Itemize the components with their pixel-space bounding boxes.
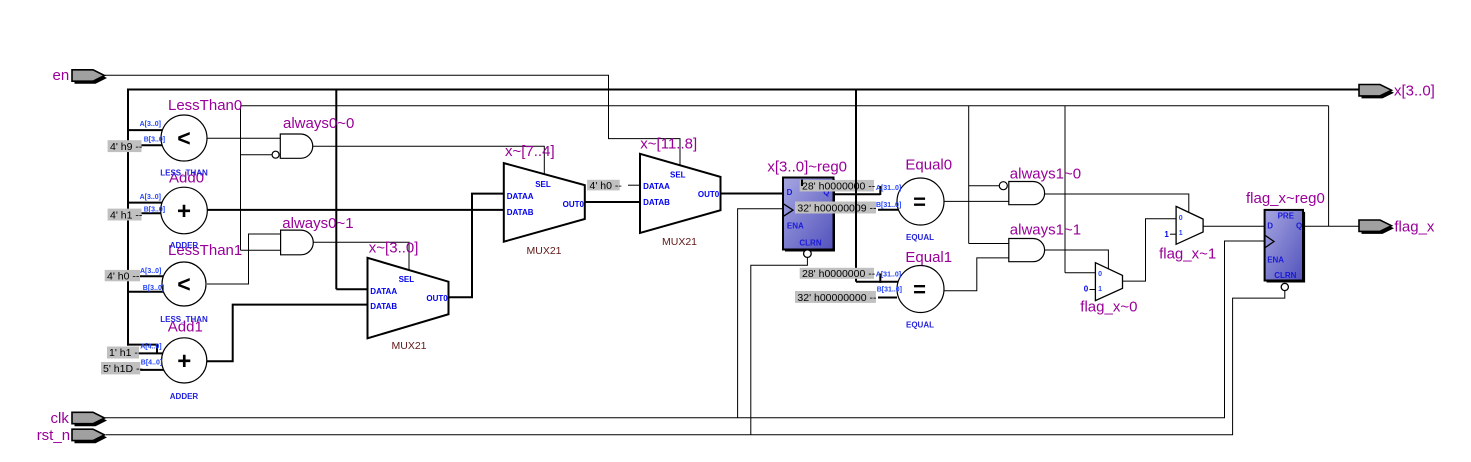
- wire stub Q to Equal0 A: [879, 186, 881, 195]
- wire to always0~1 lower input: [241, 249, 282, 251]
- const 28'h0000000 box (Equal0 A): [800, 180, 876, 193]
- svg-text:A[4..0]: A[4..0]: [140, 343, 161, 350]
- operator Add1: [162, 338, 207, 383]
- wire clk branch to x reg clock: [738, 209, 784, 418]
- operator LessThan0: [161, 115, 207, 161]
- svg-text:+: +: [177, 198, 191, 225]
- svg-text:B[4..0]: B[4..0]: [141, 360, 162, 367]
- svg-text:A[3..0]: A[3..0]: [140, 194, 161, 201]
- svg-text:ADDER: ADDER: [170, 392, 199, 401]
- wire flag_x~0 out to flag_x~1 input 0: [1123, 219, 1178, 281]
- mux x~[3..0]: [368, 258, 449, 339]
- svg-text:32' h00000000 --: 32' h00000000 --: [797, 292, 877, 304]
- svg-text:4' h0 --: 4' h0 --: [590, 180, 623, 192]
- svg-text:CLRN: CLRN: [1274, 271, 1296, 280]
- svg-text:flag_x~reg0: flag_x~reg0: [1246, 190, 1325, 207]
- svg-text:always0~0: always0~0: [283, 115, 354, 132]
- wire bus to Equal1 A row: [856, 281, 898, 283]
- svg-text:=: =: [913, 277, 926, 302]
- wire x-bus feedback left vertical: [127, 89, 129, 346]
- svg-text:LessThan0: LessThan0: [168, 97, 242, 114]
- wire flag_x feedback horizontal: [241, 105, 1329, 107]
- svg-text:flag_x~1: flag_x~1: [1159, 245, 1216, 262]
- svg-text:1: 1: [1179, 230, 1183, 237]
- svg-text:x~[3..0]: x~[3..0]: [369, 240, 419, 257]
- wire x-bus to Add0 A: [128, 202, 165, 204]
- const 32'h00000009 box (Equal0 B): [795, 202, 877, 215]
- wire x-bus to LessThan1 B: [128, 291, 166, 293]
- svg-text:ENA: ENA: [1267, 255, 1284, 264]
- svg-text:5' h1D --: 5' h1D --: [103, 363, 143, 375]
- output pin x[3..0]: [1359, 85, 1394, 99]
- wire rst_n net: [106, 290, 1285, 435]
- wire Equal1 B port: [878, 297, 897, 299]
- const 5'h1D box: [101, 362, 143, 375]
- svg-text:MUX21: MUX21: [526, 245, 561, 257]
- mux flag_x~0: [1095, 263, 1122, 301]
- wire Add0 B port from const: [142, 212, 166, 214]
- svg-text:ADDER: ADDER: [170, 241, 199, 250]
- svg-text:SEL: SEL: [535, 180, 551, 189]
- svg-text:+: +: [177, 348, 191, 375]
- svg-text:PRE: PRE: [1278, 212, 1295, 221]
- register flag_x~reg0: [1265, 210, 1306, 291]
- svg-text:MUX21: MUX21: [391, 340, 426, 352]
- svg-text:4' h1 --: 4' h1 --: [110, 209, 143, 221]
- svg-text:4' h0 --: 4' h0 --: [107, 271, 140, 283]
- wire always1~1 out to SEL of flag_x~0: [1045, 250, 1109, 270]
- svg-text:DATAB: DATAB: [507, 208, 534, 217]
- wire flag reg Q to flag_x pin: [1303, 225, 1360, 227]
- svg-text:B[31..0]: B[31..0]: [877, 287, 902, 294]
- wire rst branch to x reg CLRN: [751, 257, 808, 435]
- svg-text:Q: Q: [1296, 222, 1302, 231]
- svg-text:Equal1: Equal1: [905, 249, 952, 266]
- svg-text:1: 1: [1098, 286, 1102, 293]
- svg-text:clk: clk: [51, 410, 70, 427]
- wire en net: [105, 75, 680, 166]
- wire to flag_x~0 input 0: [1065, 272, 1096, 274]
- const 4'h9 box: [108, 140, 143, 153]
- svg-text:DATAB: DATAB: [643, 198, 670, 207]
- svg-text:OUT0: OUT0: [563, 200, 585, 209]
- gate always0~0: [272, 134, 313, 158]
- svg-text:flag_x~0: flag_x~0: [1080, 299, 1137, 316]
- svg-text:0: 0: [1084, 284, 1089, 293]
- svg-text:LESS_THAN: LESS_THAN: [160, 169, 208, 178]
- svg-text:B[3..0]: B[3..0]: [144, 207, 165, 214]
- wire flag feedback right vertical to flag Q: [1328, 106, 1330, 227]
- const 4'h0 box (LessThan1): [105, 270, 140, 283]
- wire x-bus vertical at register Q: [855, 89, 857, 282]
- svg-text:always1~0: always1~0: [1010, 165, 1081, 182]
- svg-text:en: en: [53, 67, 70, 84]
- wire Add1 out to DATAB of x~[3..0]: [207, 305, 369, 362]
- wire Equal0 B port: [878, 209, 898, 211]
- register x[3..0]~reg0: [783, 178, 835, 258]
- wire LessThan0 B port from const: [142, 144, 167, 146]
- wire LessThan1 out to always0~1: [207, 234, 281, 284]
- svg-text:A[31..0]: A[31..0]: [876, 185, 901, 192]
- svg-text:A[31..0]: A[31..0]: [876, 271, 901, 278]
- svg-text:<: <: [177, 271, 190, 297]
- svg-text:=: =: [913, 190, 926, 215]
- svg-text:OUT0: OUT0: [698, 190, 720, 199]
- wire Add0 out to DATAB of x~[7..4]: [207, 209, 504, 211]
- svg-text:LESS_THAN: LESS_THAN: [160, 315, 208, 324]
- input pin en: [72, 70, 107, 84]
- wire flag_x~1 out to flag reg D: [1202, 225, 1265, 227]
- input pin rst_n: [72, 429, 107, 443]
- wire flag feedback left vertical: [240, 106, 242, 251]
- gate always1~0: [999, 182, 1044, 205]
- wire const to DATAA of x~[11..8]: [628, 184, 641, 186]
- svg-text:A[3..0]: A[3..0]: [140, 121, 161, 128]
- mux x~[7..4]: [504, 163, 585, 242]
- wire to always0~0 bubble: [241, 154, 273, 156]
- svg-text:CLRN: CLRN: [799, 239, 821, 248]
- wire x~[3..0] OUT0 to DATAA of x~[7..4]: [449, 194, 505, 298]
- svg-text:DATAA: DATAA: [370, 287, 397, 296]
- svg-text:x~[11..8]: x~[11..8]: [640, 136, 697, 153]
- svg-text:1' h1 --: 1' h1 --: [109, 347, 142, 359]
- wire x-bus horizontal to x[3..0] pin: [127, 89, 1360, 91]
- wire to DATAA of x~[3..0]: [336, 288, 369, 290]
- wire LessThan0 out to always0~0: [207, 137, 281, 139]
- wire always0~1 out to SEL of x~[3..0]: [313, 242, 409, 271]
- wire overlay on Equal0 const boxes: [855, 179, 857, 214]
- svg-text:rst_n: rst_n: [37, 427, 70, 444]
- svg-text:EQUAL: EQUAL: [906, 233, 934, 242]
- svg-text:<: <: [177, 125, 190, 151]
- wire Add1 B port from const: [140, 369, 165, 371]
- svg-text:SEL: SEL: [670, 171, 686, 180]
- svg-text:4' h9 --: 4' h9 --: [110, 141, 143, 153]
- svg-text:Equal0: Equal0: [905, 157, 952, 174]
- wire flag feedback vertical to flag_x~0: [1064, 106, 1066, 273]
- svg-text:always1~1: always1~1: [1010, 222, 1081, 239]
- wire const 0 to flag_x~0 input 1: [1090, 289, 1097, 291]
- svg-text:SEL: SEL: [399, 275, 415, 284]
- svg-text:x[3..0]: x[3..0]: [1394, 83, 1435, 100]
- wire Equal1 out to always1~1: [944, 258, 1009, 291]
- wire clk net: [105, 241, 1265, 418]
- svg-text:0: 0: [1098, 271, 1102, 278]
- operator Add0: [161, 187, 208, 234]
- svg-text:B[31..0]: B[31..0]: [876, 202, 901, 209]
- wire always0~0 out to SEL of x~[7..4]: [313, 146, 544, 175]
- const 4'h1 box: [108, 209, 143, 222]
- svg-text:MUX21: MUX21: [662, 236, 697, 248]
- operator Equal1: [897, 266, 944, 313]
- svg-text:D: D: [1267, 222, 1273, 231]
- wire register Q output: [834, 193, 880, 195]
- operator LessThan1: [162, 262, 206, 306]
- wire stub to Equal1 A: [879, 274, 881, 283]
- const 4'h0 box (x~[11..8] DATAA): [587, 180, 622, 192]
- gate always1~1: [1009, 239, 1045, 262]
- svg-text:A[3..0]: A[3..0]: [140, 268, 161, 275]
- wire Add1 A port from const: [139, 352, 166, 354]
- svg-text:x~[7..4]: x~[7..4]: [505, 143, 555, 160]
- wire x-bus vertical to x~[3..0] DATAA: [335, 89, 337, 290]
- svg-text:D: D: [787, 188, 793, 197]
- const 1'h1 box: [107, 347, 142, 360]
- mux x~[11..8]: [640, 154, 721, 233]
- svg-text:DATAA: DATAA: [507, 192, 534, 201]
- svg-text:B[3..0]: B[3..0]: [144, 137, 165, 144]
- svg-text:B[3..0]: B[3..0]: [143, 285, 164, 292]
- output pin flag_x: [1359, 220, 1394, 234]
- wire x-bus to LessThan0 A: [128, 129, 166, 131]
- wire LessThan1 A port from const: [140, 275, 166, 277]
- svg-text:DATAA: DATAA: [643, 182, 670, 191]
- svg-text:EQUAL: EQUAL: [906, 321, 934, 330]
- const 32'h00000000 box (Equal1 B): [795, 291, 877, 304]
- input pin clk: [72, 412, 107, 426]
- svg-text:DATAB: DATAB: [370, 302, 397, 311]
- wire flag feedback vertical to always1 gates: [968, 106, 970, 244]
- svg-text:flag_x: flag_x: [1394, 219, 1435, 236]
- wire x~[7..4] OUT0 to DATAB of x~[11..8]: [585, 201, 641, 203]
- gate always0~1: [281, 230, 314, 255]
- wire to always1~1 upper input: [969, 243, 1009, 245]
- svg-text:28' h0000000 --: 28' h0000000 --: [802, 268, 876, 280]
- svg-text:always0~1: always0~1: [282, 215, 353, 232]
- svg-text:28' h0000000 --: 28' h0000000 --: [802, 181, 876, 193]
- wire to always1~0 bubble: [969, 185, 1000, 187]
- wire tick at x reg const box: [801, 180, 803, 187]
- wire x-bus to Add1 A: [127, 345, 157, 354]
- wire always1~0 out to SEL of flag_x~1: [1045, 194, 1189, 214]
- svg-text:1: 1: [1164, 230, 1169, 239]
- wire Equal0 out to always1~0: [944, 200, 1009, 202]
- mux flag_x~1: [1176, 206, 1203, 244]
- svg-text:x[3..0]~reg0: x[3..0]~reg0: [767, 159, 847, 176]
- const 28'h0000000 box (Equal1 A): [800, 268, 876, 280]
- svg-text:ENA: ENA: [787, 221, 804, 230]
- wire x~[11..8] OUT0 to register D: [721, 193, 785, 195]
- svg-text:OUT0: OUT0: [426, 294, 448, 303]
- operator Equal0: [897, 178, 944, 225]
- wire const 1 to flag_x~1 input 1: [1170, 233, 1177, 235]
- svg-text:32' h00000009 --: 32' h00000009 --: [797, 202, 877, 214]
- svg-text:0: 0: [1179, 215, 1183, 222]
